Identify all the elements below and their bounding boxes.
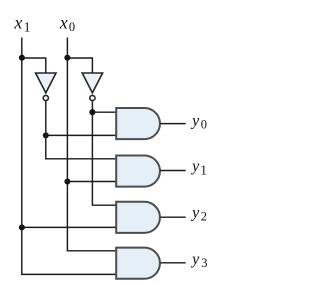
junction dot U1/G1 branch	[43, 132, 49, 138]
wire x1 branch to inverter U1	[22, 58, 46, 73]
wire x1 branch to gate G3 lower input	[22, 226, 116, 228]
svg-text:0: 0	[69, 20, 75, 34]
svg-text:3: 3	[201, 256, 207, 270]
svg-text:y: y	[190, 112, 200, 129]
node x0 label	[59, 12, 75, 34]
junction dot U2/G1 branch	[89, 109, 95, 115]
node x1 label	[13, 12, 30, 34]
and-gate G1 (y0)	[116, 108, 160, 139]
node y2 label	[190, 204, 207, 223]
svg-text:x: x	[13, 12, 22, 32]
junction dot x0/inverter branch	[64, 55, 70, 61]
wire x1 vertical trunk to gate G4 lower input	[22, 38, 116, 275]
svg-text:2: 2	[201, 210, 207, 224]
wire x0 vertical trunk to gate G4 upper input	[67, 38, 116, 251]
junction dot x1/G3 branch	[19, 224, 25, 230]
wire G2 output	[160, 170, 185, 172]
node y3 label	[190, 251, 207, 270]
svg-text:1: 1	[24, 19, 31, 34]
svg-text:y: y	[190, 158, 200, 175]
junction dot x1/inverter branch	[19, 55, 25, 61]
node y1 label	[190, 158, 207, 177]
wire x0 branch to inverter U2	[67, 58, 92, 73]
wire inverter U1 output trunk to gate G2 upper input	[46, 101, 116, 159]
svg-text:x: x	[59, 12, 68, 32]
wire U2 branch to gate G1 upper input	[92, 111, 116, 113]
wire U1 branch to gate G1 lower input	[46, 134, 116, 136]
svg-text:y: y	[190, 204, 200, 221]
junction dot x0/G2 branch	[64, 178, 70, 184]
wire G4 output	[160, 262, 185, 264]
wire G1 output	[160, 123, 185, 125]
wire inverter U2 output trunk to gate G3 upper input	[92, 101, 116, 205]
wire x0 branch to gate G2 lower input	[67, 181, 116, 183]
and-gate G4 (y3)	[116, 248, 160, 279]
inverter U1 (x1 NOT)	[36, 73, 56, 101]
node y0 label	[190, 112, 207, 131]
and-gate G2 (y1)	[116, 156, 160, 187]
svg-text:y: y	[190, 251, 200, 268]
and-gate G3 (y2)	[116, 202, 160, 233]
inverter U2 (x0 NOT)	[82, 73, 102, 101]
svg-text:1: 1	[200, 162, 207, 177]
svg-text:0: 0	[201, 118, 207, 132]
wire G3 output	[160, 216, 185, 218]
